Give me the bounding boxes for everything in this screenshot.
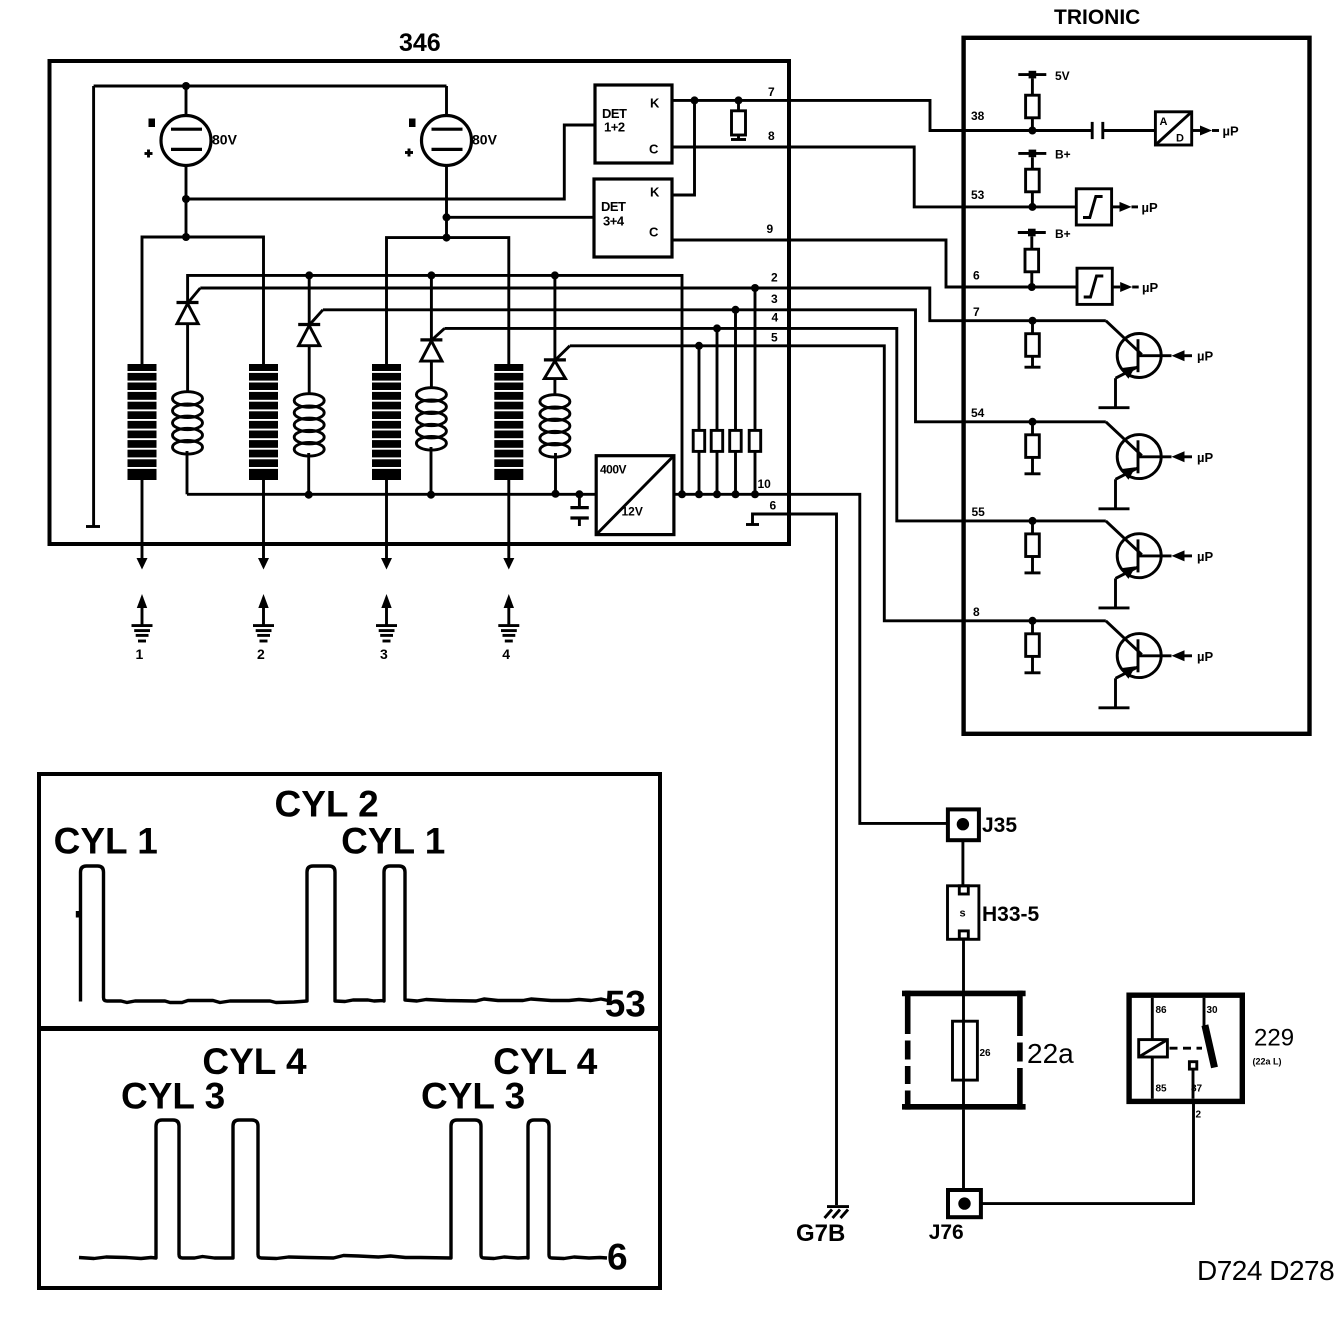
node pin6	[1028, 283, 1036, 291]
node R4 bottom	[732, 490, 740, 498]
svg-text:µP: µP	[1142, 280, 1158, 295]
wire J76 to relay pin 2	[981, 1101, 1194, 1203]
node D2 tap	[305, 271, 313, 279]
svg-text:6: 6	[973, 269, 980, 283]
wire source1 to coil pair 1	[185, 199, 188, 237]
wire DET1+2 K to pin 7	[672, 99, 789, 102]
resistor R6	[1025, 236, 1039, 287]
wire pin8 to TRIONIC pin53	[789, 147, 1076, 207]
svg-text:D: D	[1176, 133, 1184, 145]
node source2 DET tap	[443, 213, 451, 221]
svg-text:8: 8	[768, 129, 775, 143]
svg-text:400V: 400V	[600, 463, 627, 477]
wire pin4 to TRIONIC pin55	[445, 328, 1106, 521]
spark gap output cyl 1	[137, 480, 148, 570]
wire top bus y=86	[94, 85, 447, 88]
node R2 bottom	[695, 490, 703, 498]
svg-text:3: 3	[771, 292, 778, 306]
svg-text:CYL 1: CYL 1	[54, 821, 158, 862]
svg-text:K: K	[650, 96, 660, 111]
transistor Q1	[1099, 321, 1162, 408]
resistor R8	[1025, 621, 1041, 673]
svg-text:CYL 1: CYL 1	[341, 821, 445, 862]
svg-text:D724 D278: D724 D278	[1197, 1255, 1334, 1286]
node S2 bottom	[305, 491, 313, 499]
secondary coil S3	[416, 362, 446, 496]
svg-text:2: 2	[257, 646, 265, 662]
resistor R1 (on K line)	[731, 100, 746, 139]
svg-text:7: 7	[768, 85, 775, 99]
node pin8	[1029, 617, 1037, 625]
svg-text:µP: µP	[1197, 549, 1213, 564]
svg-text:9: 9	[767, 222, 774, 236]
spark gap output cyl 2	[258, 480, 269, 570]
svg-text:22a: 22a	[1027, 1038, 1074, 1069]
svg-text:12V: 12V	[622, 505, 643, 519]
svg-text:1+2: 1+2	[604, 120, 625, 135]
svg-text:B+: B+	[1055, 227, 1071, 241]
svg-text:5V: 5V	[1055, 69, 1070, 83]
resistor R55	[1025, 521, 1041, 573]
wire D3 drop	[430, 275, 433, 340]
wire pin7 to TRIONIC pin38	[789, 100, 1092, 130]
svg-text:B+: B+	[1055, 148, 1071, 162]
svg-text:A: A	[1160, 116, 1168, 128]
wire DET3+4 C to pin 9 then TRIONIC pin6	[672, 240, 1077, 287]
supply 5V	[1018, 69, 1069, 83]
svg-text:µP: µP	[1197, 349, 1213, 364]
arrow from uP (54)	[1138, 450, 1213, 465]
box TRIONIC (ECU)	[964, 38, 1310, 734]
svg-text:6: 6	[607, 1236, 628, 1277]
svg-text:5: 5	[771, 331, 778, 345]
wire left stub x=93.6	[92, 86, 95, 526]
diode D4	[544, 346, 570, 379]
capacitor C38	[1092, 122, 1155, 139]
A/D converter U1	[1155, 112, 1191, 145]
supply B+ (53)	[1018, 148, 1070, 162]
node R1 top	[735, 96, 743, 104]
ground G7B	[825, 1207, 850, 1218]
wire J35 to H33-5	[961, 840, 964, 886]
node pin54	[1029, 418, 1037, 426]
capacitor C1	[570, 494, 588, 526]
primary coil L4 (striped)	[492, 364, 525, 480]
wire pin6 to G7B	[789, 514, 837, 1205]
node coil feed 1	[182, 233, 190, 241]
box 346 (ignition cassette)	[50, 61, 790, 544]
svg-text:µP: µP	[1142, 200, 1158, 215]
node pin38	[1028, 127, 1036, 135]
connector H33-5	[948, 886, 979, 940]
ground 3	[376, 594, 397, 662]
svg-text:1: 1	[136, 646, 144, 662]
connector J76	[948, 1190, 981, 1217]
svg-text:H33-5: H33-5	[982, 903, 1040, 926]
svg-text:C: C	[649, 142, 659, 157]
primary coil L3 (striped)	[370, 364, 403, 480]
resistor R5 (pin2 leak)	[749, 284, 761, 494]
wire secondary ground bus y=494	[187, 493, 596, 496]
node R3 bottom	[713, 490, 721, 498]
node S4 bottom	[552, 490, 560, 498]
converter 400V/12V	[596, 456, 674, 535]
resistor R54	[1025, 422, 1041, 474]
resistor R2 (pin5 leak)	[693, 342, 705, 495]
svg-text:4: 4	[772, 311, 779, 325]
svg-text:C: C	[649, 225, 659, 240]
svg-text:µP: µP	[1197, 649, 1213, 664]
primary coil L2 (striped)	[247, 364, 280, 480]
svg-text:10: 10	[758, 477, 772, 491]
resistor R53	[1026, 157, 1040, 207]
svg-text:CYL 2: CYL 2	[275, 784, 379, 825]
transistor Q3	[1099, 521, 1162, 608]
diode D2	[298, 310, 323, 346]
diode D1	[177, 288, 201, 324]
wire D2 drop	[308, 275, 311, 324]
node K link	[691, 96, 699, 104]
ground 4	[498, 594, 519, 662]
ground 1	[132, 594, 153, 662]
wire DET1+2 C to pin 8	[672, 146, 789, 149]
svg-text:TRIONIC: TRIONIC	[1054, 6, 1140, 29]
transistor Q2	[1099, 422, 1162, 509]
fuse holder box 22a (dashed)	[902, 991, 1026, 1110]
node pin53	[1028, 203, 1036, 211]
svg-text:38: 38	[971, 109, 985, 123]
DET 3+4 knock detector	[594, 179, 672, 257]
supply B+ (6)	[1018, 227, 1071, 241]
svg-text:DET: DET	[601, 199, 626, 214]
svg-text:86: 86	[1156, 1005, 1168, 1016]
svg-text:53: 53	[971, 188, 985, 202]
resistor R4 (pin3 leak)	[730, 306, 742, 495]
secondary coil S2	[294, 346, 324, 495]
node D3 tap	[427, 271, 435, 279]
node pin55	[1029, 517, 1037, 525]
arrow from uP (55)	[1138, 549, 1213, 564]
wire fuse to J76	[962, 1110, 965, 1190]
secondary coil S1	[173, 324, 203, 495]
wire pin5 to TRIONIC pin8	[570, 346, 1106, 621]
svg-text:2: 2	[771, 271, 778, 285]
waveform 53	[76, 911, 81, 918]
svg-text:229: 229	[1254, 1025, 1294, 1052]
svg-text:8: 8	[973, 605, 980, 619]
svg-text:s: s	[960, 908, 966, 920]
svg-text:7: 7	[973, 305, 980, 319]
svg-text:CYL 3: CYL 3	[121, 1076, 225, 1117]
wire K link to DET3+4 K	[672, 100, 695, 195]
wire 400V bus to pin 10 and J35	[674, 494, 948, 823]
arrow to uP (6)	[1112, 280, 1158, 295]
waveform 6	[79, 1120, 607, 1259]
schmitt trigger U2	[1076, 189, 1111, 225]
oscilloscope box	[39, 774, 660, 1288]
node pin7	[1029, 317, 1037, 325]
arrow from uP (8)	[1138, 649, 1213, 664]
fuse 26	[953, 1021, 978, 1080]
svg-text:(22a L): (22a L)	[1253, 1057, 1282, 1067]
wire pin2 to TRIONIC pin7	[200, 288, 1106, 321]
svg-text:G7B: G7B	[796, 1220, 845, 1247]
node S3 bottom	[427, 491, 435, 499]
spark gap output cyl 4	[503, 480, 514, 570]
connector J35	[948, 809, 979, 840]
node D4 tap	[551, 271, 559, 279]
node top of source 1	[182, 82, 190, 90]
svg-text:µP: µP	[1223, 124, 1239, 139]
svg-text:53: 53	[605, 984, 646, 1025]
wire source2 bottom to DET 3+4	[447, 166, 595, 218]
svg-text:55: 55	[972, 505, 986, 519]
wire H33-5 to fuse box	[962, 939, 965, 991]
arrow from uP (7)	[1138, 349, 1213, 364]
node coil feed 2	[443, 234, 451, 242]
svg-text:346: 346	[399, 29, 441, 57]
node source1 bottom	[182, 195, 190, 203]
node capacitor tap	[575, 490, 583, 498]
diode D3	[420, 328, 444, 361]
svg-text:CYL 3: CYL 3	[421, 1076, 525, 1117]
source B2 80V (cyl 3+4 supply)	[405, 86, 498, 166]
svg-text:J76: J76	[929, 1221, 964, 1244]
svg-text:54: 54	[971, 406, 985, 420]
svg-text:87: 87	[1191, 1084, 1203, 1095]
schmitt trigger U3	[1077, 268, 1112, 304]
wire pin3 to TRIONIC pin54	[323, 310, 1106, 422]
primary coil L1 (striped)	[126, 364, 159, 480]
svg-text:µP: µP	[1197, 450, 1213, 465]
svg-text:3+4: 3+4	[603, 214, 625, 229]
svg-text:30: 30	[1207, 1005, 1219, 1016]
svg-text:3: 3	[380, 646, 388, 662]
wire diode cathode bus y=275	[188, 275, 682, 494]
wire D4 drop	[553, 275, 556, 360]
ground stub pin 6	[746, 514, 789, 525]
wire through fuse	[962, 991, 965, 1110]
transistor Q4	[1099, 621, 1162, 708]
node bus-cathode link	[678, 490, 686, 498]
node R5 bottom	[751, 490, 759, 498]
source B1 80V (cyl 1+2 supply)	[145, 86, 238, 166]
relay 229	[1129, 995, 1242, 1101]
secondary coil S4	[540, 379, 570, 493]
arrow to uP (53)	[1112, 200, 1158, 215]
svg-text:2: 2	[1196, 1110, 1202, 1121]
resistor R38	[1026, 78, 1040, 130]
spark gap output cyl 3	[381, 480, 392, 570]
resistor R3 (pin4 leak)	[711, 324, 723, 494]
svg-text:K: K	[650, 185, 660, 200]
svg-text:26: 26	[980, 1048, 992, 1059]
wire source1 bottom to DET 1+2	[186, 125, 596, 199]
svg-text:6: 6	[770, 499, 777, 513]
svg-text:80V: 80V	[212, 132, 238, 148]
wire source2 to coil pair 2	[445, 217, 448, 237]
resistor R7	[1025, 321, 1041, 368]
arrow to uP (38)	[1192, 124, 1239, 139]
DET 1+2 knock detector	[595, 85, 672, 163]
wire coil feed rectangle 1	[142, 237, 264, 364]
svg-text:85: 85	[1156, 1084, 1168, 1095]
svg-text:4: 4	[502, 646, 510, 662]
wire coil feed rectangle 2	[387, 238, 509, 364]
ground 2	[253, 594, 274, 662]
svg-text:80V: 80V	[472, 132, 498, 148]
svg-text:J35: J35	[982, 814, 1017, 837]
